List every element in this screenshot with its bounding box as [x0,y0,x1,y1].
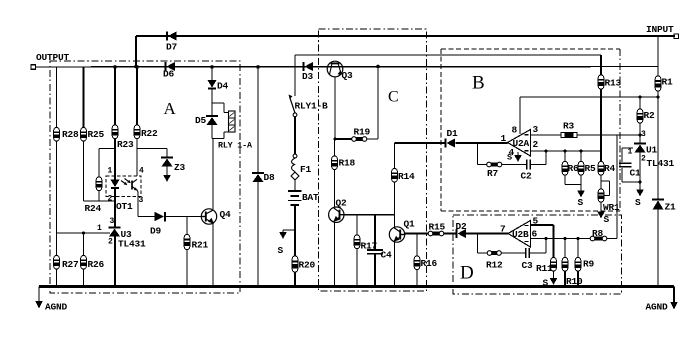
wire R24 bottom [98,191,100,202]
resistor R8 [590,228,607,241]
U3 pin 1 label [97,224,102,233]
transistor Q1 [389,219,415,243]
diode D2 [456,221,468,238]
svg-text:Q2: Q2 [336,198,348,209]
section label C [388,89,399,106]
svg-text:TL431: TL431 [647,158,675,169]
wire R14 top lead [394,143,396,169]
wire Z3 branch [137,149,167,158]
svg-text:R20: R20 [299,260,316,271]
svg-text:D4: D4 [217,81,229,92]
node C2 riser junction [545,150,548,153]
svg-text:C: C [388,89,399,106]
wire Q3 emitter down [334,77,336,139]
resistor R9 [575,258,594,272]
svg-text:R26: R26 [88,259,105,270]
wire R16 to bus [416,270,418,288]
wire R19 left [335,138,352,140]
node R19 riser junction [376,65,380,69]
wire R6 leads [564,151,566,162]
svg-text:2: 2 [641,154,646,163]
wire R10 to bus [564,271,566,287]
svg-text:F1: F1 [300,164,312,175]
node R10 top junction [564,237,567,240]
wire R10 leads [564,239,566,258]
resistor R10 [562,258,583,288]
wire C3 right [530,252,546,254]
svg-text:1: 1 [108,167,113,176]
potentiometer WR1 [598,181,620,213]
svg-text:B: B [472,73,485,94]
wire D5 to Q4 collector node [212,124,213,209]
R5 R6 S arrow [577,185,585,209]
svg-text:R23: R23 [117,139,134,150]
zener Z1 [652,200,676,213]
wire U2A pin3 to R3 [531,134,563,136]
svg-text:A: A [164,99,177,118]
svg-text:Q3: Q3 [342,70,354,81]
dash-dot box section C [319,29,427,291]
wire OT1 LED cathode to U3 [114,189,116,228]
svg-text:D6: D6 [163,69,175,80]
wire R19 right [367,138,379,140]
wire Q1 emitter to bus [394,242,396,287]
resistor R16 [414,256,437,270]
wire U2A pin2 net [531,150,602,152]
U2B pin 7 label [500,224,506,235]
U1 pin 2 label [641,154,646,163]
wire R19 right riser [377,67,379,140]
svg-text:3: 3 [641,130,646,139]
wire input rail [136,35,675,37]
svg-text:4: 4 [139,167,144,176]
svg-text:8: 8 [512,125,518,136]
svg-text:R28: R28 [62,129,79,140]
svg-text:3: 3 [139,196,144,205]
diode D8 [252,172,275,183]
wire D8 column top [257,67,259,173]
resistor R15 [428,222,445,236]
svg-text:Z1: Z1 [665,202,677,213]
svg-text:C4: C4 [381,250,393,261]
svg-text:1: 1 [97,224,102,233]
wire R15 to D2 [444,233,456,235]
OT1 light arrows [121,179,131,186]
diode D3 [302,62,314,82]
R11 S arrow [543,271,558,289]
S tap from battery line [278,230,296,256]
wire U2A pin8 riser [519,97,521,134]
resistor R4 [598,162,615,176]
U3 pin 2 label [108,238,113,247]
svg-text:R2: R2 [644,110,656,121]
svg-text:2: 2 [533,139,539,150]
resistor R25 [81,128,105,142]
wire D4 column [211,67,213,80]
svg-text:R4: R4 [604,163,616,174]
svg-text:R25: R25 [88,129,105,140]
resistor R23 [112,125,134,150]
capacitor C1 [619,163,641,178]
wire C4 to bus [374,255,376,287]
node R2 top junction [639,96,642,99]
wire R5 leads [580,151,582,162]
OT1 phototransistor [132,179,138,192]
wire U2A output net [395,142,446,144]
svg-text:RLY 1-A: RLY 1-A [218,141,253,151]
OT1 pin 1 label [108,167,113,176]
resistor R6 [562,162,579,176]
relay coil RLY1-A [218,111,253,151]
node R9 top junction [577,237,580,240]
wire U3 cathode-anode column [114,237,116,288]
svg-text:S: S [278,245,284,256]
section label A [164,99,177,118]
svg-text:R24: R24 [85,203,102,214]
svg-text:S: S [578,197,584,208]
INPUT terminal [646,24,679,39]
svg-text:R14: R14 [398,171,415,182]
U2B pin 5 label [533,216,539,227]
svg-text:R21: R21 [192,240,209,251]
wire R13 to R4 [600,89,602,162]
OT1 pin 2 label [108,195,113,204]
diode D7 [166,32,178,53]
node R5 top junction [580,150,583,153]
svg-text:OT1: OT1 [116,201,133,212]
wire Z1 to bus [657,210,659,288]
wire R2 leads [639,97,641,109]
wire D2 to U2B output [466,233,508,235]
wire switch to fuse [294,117,296,154]
diode D4 [208,80,229,92]
wire R17 to bus [356,249,358,288]
capacitor C3 [522,248,534,271]
wire R27 to bus [56,269,58,287]
wire R9 to bus [577,271,579,287]
OT1 LED [111,180,120,188]
svg-text:R3: R3 [563,121,575,132]
TL431 U3 [109,228,147,250]
OT1 pin 3 label [139,196,144,205]
svg-text:7: 7 [500,224,506,235]
resistor R18 [332,156,356,170]
wire relay coil branch bottom [212,132,229,139]
resistor R2 [637,109,655,123]
resistor R13 [598,75,621,89]
svg-text:D1: D1 [447,128,459,139]
dash-dot box section D [453,215,622,294]
op-amp U2A [508,130,531,157]
wire R9 leads [577,239,579,258]
U3 pin 3 label [110,217,115,226]
svg-text:S: S [507,153,512,163]
wire R18 to Q2 collector [334,170,336,208]
wire Q1 base to R15 [405,233,428,235]
svg-text:R19: R19 [354,127,371,138]
wire Q2 base net [344,214,395,216]
optocoupler OT1 box [106,176,141,212]
svg-text:Q1: Q1 [404,219,416,230]
wire Q2 emitter to bus [333,222,335,287]
svg-text:AGND: AGND [45,302,68,313]
wire R23 column [114,67,116,125]
resistor R19 [352,127,371,142]
zener Z3 [161,158,186,174]
resistor R3 [561,121,577,138]
svg-text:3: 3 [533,124,539,135]
diode D1 [446,128,459,148]
wire R26 leads [83,233,85,256]
wire R4 to WR1 [600,175,602,189]
wire battery to bus [294,205,296,287]
svg-text:R11: R11 [536,263,553,274]
wire R7 left riser [478,143,487,165]
wire R13 column top [600,55,602,75]
wire R6 bottom join [565,175,581,185]
U2A pin 2 label [533,139,539,150]
diode D6 [163,62,175,80]
wire C2 riser [545,151,547,165]
svg-text:6: 6 [532,229,538,240]
wire C2 right [531,164,546,166]
svg-text:R5: R5 [585,163,597,174]
node C3 riser junction [545,237,548,240]
section label D [460,263,474,284]
svg-text:S: S [604,214,610,225]
wire R28 to R27 node [56,141,58,233]
svg-text:R18: R18 [339,158,356,169]
svg-text:R6: R6 [568,163,580,174]
node D8 top junction [256,65,260,69]
resistor R21 [184,235,208,251]
resistor R5 [578,162,596,176]
U2A pin 4 label [509,147,515,158]
svg-text:2: 2 [108,195,113,204]
wire R7 to C2 [502,164,526,166]
transistor Q2 [329,198,347,223]
svg-text:R13: R13 [605,78,622,89]
node R1 bottom junction [657,96,660,99]
svg-text:R22: R22 [141,128,158,139]
node U1 cathode junction [639,134,642,137]
wire C4 top lead [374,215,376,250]
wire C3 riser [545,239,547,254]
resistor R14 [392,169,415,183]
wire D8 to bus [257,182,259,288]
resistor R1 [655,76,673,91]
capacitor C4 [367,250,392,261]
resistor R24 [85,177,102,214]
wire input column upper [657,36,659,76]
svg-text:D2: D2 [456,221,468,232]
svg-text:U1: U1 [646,145,658,156]
svg-text:R15: R15 [429,222,446,233]
wire V+ net y97 [520,96,658,98]
wire R21 to bus [186,250,188,288]
svg-text:R27: R27 [62,259,79,270]
dash-dot box section A [50,61,240,293]
wire R28 column [56,67,58,128]
wire RLY1-B fixed lead [294,55,296,96]
svg-text:C3: C3 [522,260,534,271]
wire R22 to Z3 and OT1 pin4 [136,139,138,177]
node D7 branch junction [134,65,138,69]
wire rail mid (relay to R13) [295,54,601,56]
wire R21 leads [186,217,188,235]
resistor R22 [134,125,158,139]
fuse F1 [291,154,311,180]
svg-text:D: D [460,263,474,284]
wire OT1 emitter down [137,193,139,217]
OT1 pin 4 label [139,167,144,176]
wire OT1 to D9 [138,216,155,218]
svg-text:TL431: TL431 [118,239,146,250]
capacitor C2 [521,160,533,182]
U1 pin 3 label [641,130,646,139]
wire D1 to op-amp [456,142,508,144]
svg-text:1: 1 [501,133,507,144]
svg-text:RLY1-B: RLY1-B [295,101,329,112]
U2A pin 4 S arrow [507,152,522,163]
svg-text:D5: D5 [195,115,207,126]
svg-text:OUTPUT: OUTPUT [36,52,70,63]
U2A pin 8 label [512,125,518,136]
svg-text:Q4: Q4 [220,209,232,220]
svg-text:R7: R7 [487,168,499,179]
svg-text:D9: D9 [150,226,162,237]
wire R14 to Q1 collector [394,182,396,228]
resistor R26 [81,256,105,271]
svg-text:Z3: Z3 [174,162,186,173]
wire R5 stem [580,175,582,185]
op-amp U2B [508,221,531,248]
WR1 S arrow [597,202,609,225]
wire R8 to feedback riser [607,135,617,239]
svg-text:D3: D3 [302,71,314,82]
node D4 top junction [210,65,214,69]
resistor R27 [54,256,79,271]
svg-text:U2B: U2B [512,229,529,240]
resistor R28 [54,128,79,142]
node U1 anode junction [639,181,642,184]
node R23 top junction [113,65,117,69]
svg-text:C1: C1 [630,168,642,179]
wire Q4 emitter to bus [212,224,214,288]
svg-text:R12: R12 [486,260,503,271]
wire fuse to battery [294,179,296,190]
resistor R17 [354,235,377,252]
battery BAT [288,191,319,205]
wire R25 to U3 node [84,141,115,201]
ground AGND left [35,287,67,313]
wire R27 leads [56,233,58,256]
wire D4 to D5 node [211,90,213,116]
node R6 top junction [564,150,567,153]
wire R25 column [83,67,85,128]
svg-text:S: S [635,197,641,208]
U1 pin 1 label [628,148,633,157]
svg-text:3: 3 [110,217,115,226]
section label B [472,73,485,94]
wire U2B pin6 net [531,238,591,240]
wire R17 leads [356,215,358,235]
svg-text:2: 2 [108,238,113,247]
svg-text:R16: R16 [421,258,438,269]
resistor R12 [486,251,503,271]
svg-text:D7: D7 [166,42,178,53]
diode D9 [150,212,165,237]
wire U1 anode stem [639,153,641,184]
svg-text:D8: D8 [264,172,276,183]
wire R16 leads [416,234,418,257]
svg-text:INPUT: INPUT [646,24,674,35]
transistor Q4 [201,209,231,224]
wire relay coil branch top [212,103,229,113]
wire R23 to OT1 LED [114,139,116,180]
node R22 top junction [135,65,139,69]
wire ground bus [39,285,674,288]
zener D5 [195,115,218,126]
wire R24 top tap [99,148,115,150]
wire output rail [35,66,658,69]
svg-text:AGND: AGND [646,302,669,313]
U2A pin 1 label [501,133,507,144]
wire R18 top lead [334,139,336,156]
U1 S arrow [635,182,644,208]
dashed box section B [441,49,620,211]
resistor R7 [487,162,502,179]
wire D9 to Q4 base [166,216,202,218]
ground AGND right [646,287,678,313]
wire R26 to bus [83,269,85,287]
node R26 top junction [82,232,85,235]
wire R3 to U1 cathode [577,134,640,136]
resistor R20 [292,256,315,272]
TL431 U1 [634,144,675,170]
OUTPUT terminal [31,52,70,69]
svg-text:U2A: U2A [513,138,530,149]
wire D7 branch vertical [135,36,137,67]
resistor R11 [536,258,556,275]
svg-text:R9: R9 [583,259,595,270]
wire R2 to U1 [639,123,641,144]
wire R1 lower lead [657,91,659,97]
wire R22 column [136,67,138,125]
relay contact RLY1-B [289,95,329,117]
wire C1 bottom return [622,168,640,182]
wire R12 to C3 [502,252,526,254]
svg-text:1: 1 [628,148,633,157]
wire R24 leads [98,149,100,178]
svg-text:C2: C2 [521,171,533,182]
svg-text:R1: R1 [662,77,674,88]
transistor Q3 [327,61,353,81]
node R18 top junction [334,138,337,141]
wire R12 left riser [478,234,488,254]
wire U1 ref tick [622,148,633,162]
U2A pin 3 label [533,124,539,135]
U2B pin 6 label [532,229,538,240]
svg-text:BAT: BAT [302,192,319,203]
wire U2B pin5 net [531,225,554,258]
svg-text:R8: R8 [592,228,604,239]
arrow below Z3 [163,167,171,183]
wire input column mid [657,97,659,199]
wire U3 ref net [57,232,111,234]
